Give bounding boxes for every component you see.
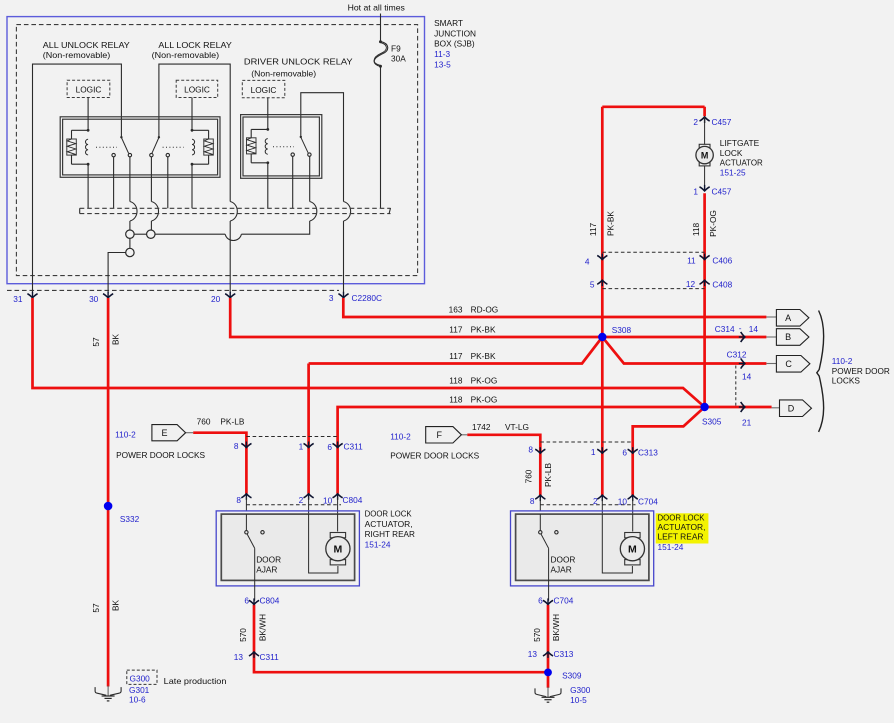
svg-text:4: 4 [585,256,590,266]
relay K2 assembly frame / wire to pin 20 and switch pivot [159,64,230,201]
svg-text:C704: C704 [638,496,658,506]
relay K3 switch [300,136,302,138]
connector flag D [780,400,812,417]
fuse F9 30A [380,14,382,42]
splice S309 [544,669,552,677]
svg-text:ALL UNLOCK RELAY: ALL UNLOCK RELAY [43,40,131,50]
right-rear pin 13 C311 [249,652,259,658]
relay K2 switch [158,136,160,138]
wire 117 PK-BK lower branch (line 3) [309,337,767,364]
svg-text:BOX (SJB): BOX (SJB) [434,39,475,49]
relay box 2 driver (double border) [241,115,322,179]
wire from E flag 760 PK-LB [193,433,246,494]
door lock actuator right rear box [216,511,359,586]
svg-text:LOCK: LOCK [720,148,743,158]
svg-text:PK-LB: PK-LB [220,417,244,427]
brace for 110-2 POWER DOOR LOCKS [817,311,824,432]
connector flag E [186,432,194,434]
svg-text:118: 118 [449,375,463,385]
svg-text:PK-OG: PK-OG [708,210,718,237]
wire 163 RD-OG from pin 3 to connector A (line 1) [343,298,766,317]
pin 3 / connector C2280C [338,292,348,298]
left-rear 570 BK/WH bottom wire to ground G300 [547,605,550,688]
right-rear 570 BK/WH bottom wire to S309 [254,605,548,672]
svg-text:10: 10 [618,496,628,506]
connector C406 [602,251,704,253]
connector C311 dashed [246,436,337,438]
svg-text:C311: C311 [344,441,364,451]
svg-text:PK-BK: PK-BK [471,351,496,361]
svg-text:151-24: 151-24 [365,540,391,550]
svg-text:13: 13 [528,649,538,659]
svg-text:570: 570 [238,628,248,642]
svg-text:3: 3 [329,293,334,303]
svg-text:ACTUATOR: ACTUATOR [720,158,763,168]
svg-text:BK/WH: BK/WH [551,614,561,641]
svg-text:RD-OG: RD-OG [471,304,499,314]
svg-text:C314: C314 [715,324,735,334]
pin 20 [225,292,235,298]
svg-text:C804: C804 [260,596,280,606]
relay K3 coil [267,98,269,130]
wire 57 BK pin 30 to ground G300 [107,298,110,687]
svg-text:LEFT REAR: LEFT REAR [658,532,704,542]
svg-text:LOCKS: LOCKS [832,376,861,386]
svg-text:10-6: 10-6 [129,695,146,705]
svg-text:DOOR: DOOR [551,555,576,565]
relay K1 switch [120,136,122,138]
svg-text:S305: S305 [702,417,722,427]
svg-text:B: B [785,332,791,342]
unlock feed wire with hop over pin20 wire [155,233,225,235]
svg-text:G300: G300 [570,685,591,695]
wire 118 PK-OG from pin 31 (line 4) [33,298,705,407]
svg-text:POWER DOOR LOCKS: POWER DOOR LOCKS [390,450,479,460]
right-rear pin 6 C804 [249,598,259,604]
svg-text:8: 8 [530,496,535,506]
svg-text:ALL LOCK RELAY: ALL LOCK RELAY [158,40,232,50]
svg-text:110-2: 110-2 [832,356,853,366]
svg-text:C408: C408 [712,280,732,290]
svg-text:151-24: 151-24 [658,542,684,552]
svg-text:Late production: Late production [164,676,227,686]
svg-text:BK: BK [110,600,120,612]
connector flag F [461,434,467,436]
svg-text:10: 10 [323,495,333,505]
svg-text:G300: G300 [130,674,151,684]
svg-text:12: 12 [686,279,696,289]
svg-text:1: 1 [693,187,698,197]
svg-text:C311: C311 [260,652,280,662]
liftgate pin 2 C457 [700,117,710,123]
wire from F flag 1742 VT-LG [467,435,540,495]
svg-text:LOGIC: LOGIC [251,85,277,95]
left-rear pin 6 C704 [543,598,553,604]
svg-text:POWER DOOR: POWER DOOR [832,366,890,376]
svg-text:570: 570 [532,628,542,642]
svg-text:G301: G301 [129,685,150,695]
LOGIC box 1 [67,80,110,97]
connector flag B [776,329,809,346]
svg-text:8: 8 [234,441,239,451]
relay box 1 (double border) [60,117,220,178]
svg-text:DOOR LOCK: DOOR LOCK [365,508,412,518]
svg-text:LOGIC: LOGIC [76,85,102,95]
svg-text:A: A [785,313,791,323]
svg-text:DOOR: DOOR [256,555,281,565]
svg-text:PK-LB: PK-LB [543,463,553,487]
svg-text:110-2: 110-2 [115,430,136,440]
C312 dashed link [735,366,737,406]
SJB inner dashed boundary [16,25,417,276]
liftgate pin 1 C457 [700,185,710,191]
svg-text:LOGIC: LOGIC [184,85,210,95]
relay K1 assembly frame / wire to pin 31 and switch pivot [33,64,122,293]
svg-text:57: 57 [91,337,101,347]
svg-text:C704: C704 [554,596,574,606]
svg-text:30: 30 [89,294,99,304]
splice S332 [104,502,113,511]
svg-text:8: 8 [528,444,533,454]
splice S308 [598,333,606,341]
svg-text:LIFTGATE: LIFTGATE [720,138,760,148]
svg-text:14: 14 [749,324,759,334]
svg-text:PK-BK: PK-BK [606,211,616,236]
left-rear actuator label (highlighted) [656,513,709,543]
LOGIC box 2 [176,80,218,97]
svg-text:C313: C313 [554,649,574,659]
svg-text:30A: 30A [391,54,406,64]
splice S305 [700,403,708,411]
svg-text:(Non-removable): (Non-removable) [152,50,220,60]
svg-text:BK: BK [110,334,120,346]
left-rear door ajar switch [539,514,541,531]
svg-text:14: 14 [742,372,752,382]
svg-text:163: 163 [449,304,463,314]
svg-text:Hot at all times: Hot at all times [348,3,405,13]
wire line3 to right-rear pin 1 [307,364,310,494]
internal bus dashed lines [80,207,391,209]
svg-text:S332: S332 [120,514,140,524]
svg-text:PK-OG: PK-OG [471,375,498,385]
svg-text:8: 8 [236,495,241,505]
left-rear motor M [602,514,632,573]
svg-text:-: - [739,323,742,333]
svg-text:31: 31 [13,294,23,304]
left-rear pin 13 C313 [543,652,553,658]
relay K2 coil [191,98,193,131]
svg-text:1742: 1742 [472,422,491,432]
door lock actuator left rear box [511,511,654,586]
svg-text:760: 760 [197,417,211,427]
svg-text:117: 117 [449,325,463,335]
ground G300 right [535,688,546,696]
connector C313 dashed [540,441,632,443]
svg-text:VT-LG: VT-LG [505,422,529,432]
svg-text:C312: C312 [727,350,747,360]
svg-text:6: 6 [244,596,249,606]
svg-text:(Non-removable): (Non-removable) [251,69,316,79]
right-rear door ajar switch [245,514,247,531]
wire S305 to left-rear pin 6 [633,407,705,495]
svg-text:1: 1 [591,447,596,457]
connector C408 [602,288,704,290]
svg-text:118: 118 [691,223,701,237]
svg-text:(Non-removable): (Non-removable) [43,50,111,60]
svg-text:AJAR: AJAR [256,564,277,574]
svg-text:C: C [785,359,792,369]
liftgate feed wires 117/118 [602,107,704,495]
connector C704 dashed [540,504,635,506]
svg-text:S308: S308 [612,325,632,335]
svg-text:13: 13 [234,652,244,662]
black wire stubs into right-rear actuator [246,497,337,514]
svg-text:5: 5 [590,280,595,290]
svg-text:117: 117 [588,223,598,237]
svg-text:C804: C804 [343,495,363,505]
wire 117 PK-BK from pin 20 to connector B (line 2) [230,298,766,337]
svg-text:118: 118 [449,394,463,404]
smart junction box SJB outer box [7,17,425,284]
G300 dashed box (late production) [127,670,157,684]
wire 118 PK-OG lower branch (line 5) to connector D [338,407,772,494]
svg-text:S309: S309 [562,670,582,680]
stub wires to flags [766,316,776,318]
black wire stubs into left-rear actuator [540,498,632,514]
svg-text:M: M [701,150,709,160]
svg-text:JUNCTION: JUNCTION [434,28,476,38]
svg-text:POWER DOOR LOCKS: POWER DOOR LOCKS [116,450,205,460]
svg-text:C457: C457 [712,187,732,197]
svg-text:BK/WH: BK/WH [257,614,267,641]
svg-text:10-5: 10-5 [570,695,587,705]
svg-text:6: 6 [327,442,332,452]
svg-text:C2280C: C2280C [352,293,382,303]
svg-text:DRIVER UNLOCK RELAY: DRIVER UNLOCK RELAY [244,57,353,67]
svg-text:C457: C457 [712,117,732,127]
svg-text:M: M [628,543,637,555]
svg-text:AJAR: AJAR [551,564,572,574]
wire: K1 contact through bus to splice circles [130,202,137,222]
svg-text:11: 11 [687,255,696,265]
svg-text:C406: C406 [712,255,732,265]
svg-text:D: D [788,403,795,413]
ground G300/G301 left [95,687,106,695]
pin 30 [103,292,113,298]
svg-text:6: 6 [622,448,627,458]
wire from splice to pin 30 [108,253,126,294]
svg-text:RIGHT REAR: RIGHT REAR [365,529,415,539]
svg-text:F: F [437,430,443,440]
svg-text:PK-OG: PK-OG [471,394,498,404]
svg-text:2: 2 [593,496,598,506]
svg-text:2: 2 [299,495,304,505]
svg-text:E: E [161,428,167,438]
svg-text:SMART: SMART [434,18,463,28]
wire: K3 contact to unlock feed line [310,202,317,222]
relay K1 coil [87,98,89,131]
wire: K2 frame to pin 20 (hop at bus) [230,202,237,222]
svg-text:F9: F9 [391,44,401,54]
pin 31 [27,292,37,298]
liftgate motor M [704,117,706,191]
svg-text:57: 57 [91,603,101,613]
splice circles below bus [126,230,134,238]
svg-text:117: 117 [449,351,463,361]
svg-text:6: 6 [538,596,543,606]
svg-text:M: M [334,543,343,555]
svg-text:151-25: 151-25 [720,167,746,177]
right-rear motor M [309,514,338,573]
svg-text:C313: C313 [638,448,658,458]
svg-text:760: 760 [524,469,534,483]
svg-text:21: 21 [742,418,752,428]
svg-text:ACTUATOR,: ACTUATOR, [365,519,413,529]
SJB connector row C2280C dashed line [7,289,339,291]
svg-text:110-2: 110-2 [390,431,411,441]
svg-text:20: 20 [211,294,221,304]
svg-text:2: 2 [693,117,698,127]
svg-text:1: 1 [299,441,304,451]
LOGIC box 3 [242,80,284,97]
connector flag A [776,310,809,327]
connector flag C [776,356,810,373]
svg-text:11-3: 11-3 [434,49,450,59]
svg-text:13-5: 13-5 [434,59,451,69]
connector C804 dashed [246,504,341,506]
pin 21 arrow on line 5 [739,402,745,412]
relay K3 feed wire from pin 3 to switch pivot [301,93,344,202]
svg-text:PK-BK: PK-BK [471,325,496,335]
